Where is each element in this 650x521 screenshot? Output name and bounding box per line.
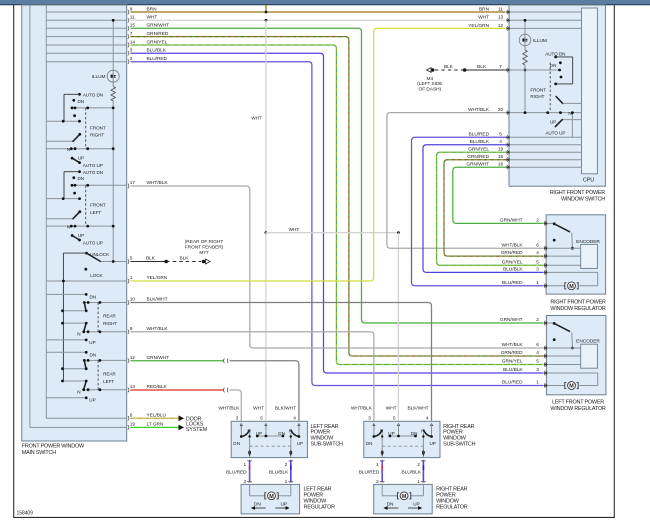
svg-text:FRONT: FRONT — [90, 203, 106, 208]
left front power window regulator caption — [550, 400, 605, 412]
wire BLU/BLK pin4 to right front regulator pin3 — [423, 145, 544, 273]
right rear power window regulator body — [374, 484, 433, 514]
svg-text:AUTO UP: AUTO UP — [83, 240, 103, 245]
svg-text:FRONT FENDER): FRONT FENDER) — [185, 244, 224, 250]
left rear power window sub-switch BLU/RED wire to regulator — [226, 460, 252, 482]
wire WHT/BLK pin9 down to right rear sub-switch pin3 — [131, 332, 374, 421]
svg-text:RIGHT FRONT POWER: RIGHT FRONT POWER — [550, 190, 606, 196]
front power window main switch body — [22, 5, 127, 441]
svg-text:ILLUM: ILLUM — [92, 74, 106, 80]
svg-text:DN: DN — [411, 431, 418, 436]
svg-text:GRN/WHT: GRN/WHT — [147, 355, 170, 361]
svg-text:FRONT: FRONT — [90, 125, 106, 130]
main switch internal feed row for pin1 — [46, 280, 126, 283]
right rear power window sub-switch body — [364, 421, 440, 457]
wire GRN/RED pin7 down to left front regulator pin4 — [131, 37, 544, 356]
main switch bus rail A — [29, 5, 31, 427]
main switch bus rail B — [45, 5, 47, 418]
main switch illumination lamp — [92, 19, 120, 262]
main switch pin 19 LT GRN row to door locks — [30, 422, 184, 431]
svg-text:M4: M4 — [427, 76, 434, 82]
left front power window regulator position switch — [547, 322, 574, 349]
right front switch pin 19 GRN/YEL — [468, 147, 581, 155]
svg-text:FRONT POWER WINDOW: FRONT POWER WINDOW — [22, 443, 85, 449]
wire BRN pin8 to right switch pin11 — [131, 11, 506, 13]
main switch caption — [22, 443, 85, 456]
svg-text:1: 1 — [536, 380, 539, 386]
svg-text:UP: UP — [550, 119, 556, 124]
right rear power window sub-switch top pin labels — [351, 405, 429, 421]
main switch rear left window switch — [46, 351, 126, 403]
svg-text:4: 4 — [536, 350, 539, 356]
wire BLK/WHT pin10 down to right rear sub-switch pin4 — [131, 303, 432, 421]
wire WHT vertical branch to rear sub-switches — [251, 20, 400, 421]
right front power window regulator caption — [550, 300, 606, 312]
svg-text:GRN/WHT: GRN/WHT — [500, 317, 523, 323]
svg-text:7: 7 — [499, 64, 502, 70]
right front switch pin 4 BLU/BLK — [470, 139, 582, 147]
wire GRN/WHT pin16 to right front regulator pin2 — [453, 167, 544, 223]
main switch pin 2 BLU/RED row — [46, 56, 167, 64]
svg-text:WINDOW REGULATOR: WINDOW REGULATOR — [550, 406, 605, 412]
svg-text:2: 2 — [536, 317, 539, 323]
right front switch pin 13 WHT — [478, 15, 581, 23]
svg-text:BLK/WHT: BLK/WHT — [408, 405, 429, 411]
svg-text:BLU/BLK: BLU/BLK — [503, 267, 523, 273]
svg-text:WHT: WHT — [251, 116, 262, 122]
main switch pin 8 BRN row — [46, 6, 157, 14]
svg-text:4: 4 — [536, 250, 539, 256]
right front switch pin 12 YEL/GRN — [468, 23, 581, 31]
svg-text:WHT/BLK: WHT/BLK — [147, 180, 169, 186]
svg-text:BLU/BLK: BLU/BLK — [402, 470, 422, 476]
svg-text:WHT/BLK: WHT/BLK — [147, 326, 169, 332]
svg-text:1: 1 — [536, 280, 539, 286]
svg-text:(REAR OF RIGHT: (REAR OF RIGHT — [185, 239, 224, 245]
svg-text:N: N — [380, 428, 383, 433]
svg-text:BLK: BLK — [180, 256, 190, 262]
svg-text:3: 3 — [368, 416, 371, 422]
svg-text:AUTO DN: AUTO DN — [83, 93, 103, 98]
right front switch caption — [550, 190, 606, 202]
main switch pin 17 WHT/BLK row — [128, 180, 169, 188]
door locks system label — [186, 416, 207, 433]
svg-text:5: 5 — [260, 416, 263, 422]
svg-text:SUB-SWITCH: SUB-SWITCH — [443, 442, 476, 448]
svg-text:WHT: WHT — [253, 405, 264, 411]
svg-text:BRN: BRN — [479, 6, 490, 12]
svg-text:YEL/BLU: YEL/BLU — [147, 413, 167, 419]
svg-text:WINDOW REGULATOR: WINDOW REGULATOR — [550, 306, 605, 312]
left rear power window regulator body — [241, 484, 300, 514]
svg-text:4: 4 — [426, 416, 429, 422]
svg-text:GRN/YEL: GRN/YEL — [502, 259, 523, 265]
wire WHT/BLK pin20 to right front regulator pin6 — [387, 113, 544, 249]
right rear power window regulator caption — [436, 486, 468, 510]
svg-text:LT GRN: LT GRN — [147, 422, 164, 428]
svg-text:OF DASH): OF DASH) — [419, 87, 442, 93]
svg-text:RIGHT REAR: RIGHT REAR — [436, 486, 468, 492]
svg-text:12: 12 — [498, 23, 504, 29]
svg-text:3: 3 — [536, 367, 539, 373]
svg-text:WHT: WHT — [478, 15, 489, 21]
right front switch CPU box — [582, 8, 598, 183]
svg-text:12: 12 — [130, 355, 136, 361]
svg-text:2: 2 — [285, 462, 288, 468]
svg-text:(LEFT SIDE: (LEFT SIDE — [417, 81, 442, 87]
svg-text:BLK: BLK — [477, 64, 487, 70]
svg-text:6: 6 — [536, 342, 539, 348]
svg-text:13: 13 — [498, 15, 504, 21]
svg-text:AUTO UP: AUTO UP — [545, 130, 565, 135]
right front switch pin 15 GRN/RED — [467, 154, 581, 162]
left rear power window regulator direction arrows — [251, 502, 290, 510]
left front power window regulator pins — [500, 317, 547, 388]
main switch pin 11 WHT row — [46, 15, 157, 23]
main switch front right window switch — [46, 93, 114, 168]
top toolbar bar — [0, 0, 650, 5]
svg-text:UP: UP — [297, 441, 303, 446]
wire RED/BLK pin13 to inline connector — [131, 388, 229, 393]
svg-text:UP: UP — [78, 156, 84, 161]
svg-text:11: 11 — [498, 6, 503, 12]
svg-text:DN: DN — [550, 63, 557, 68]
right front power window regulator motor — [547, 272, 598, 290]
svg-text:BLU/RED: BLU/RED — [359, 470, 380, 476]
svg-text:YEL/GRN: YEL/GRN — [468, 23, 489, 29]
svg-text:LEFT REAR: LEFT REAR — [304, 486, 332, 492]
svg-text:BLU/RED: BLU/RED — [226, 470, 247, 476]
svg-text:N: N — [247, 428, 250, 433]
wire BLK/WHT from connector down to left rear sub-switch pin4 — [230, 361, 299, 421]
right front switch pin 16 GRN/WHT — [466, 162, 581, 170]
svg-text:9: 9 — [130, 326, 133, 332]
wire BLU/RED pin5 to right front regulator pin1 — [412, 137, 544, 285]
svg-text:6: 6 — [130, 413, 133, 419]
svg-text:RIGHT FRONT POWER: RIGHT FRONT POWER — [550, 300, 606, 306]
right rear power window sub-switch contacts — [366, 423, 436, 458]
svg-text:BLU/RED: BLU/RED — [502, 280, 523, 286]
wire WHT pin11 to right switch pin13 — [131, 19, 506, 22]
svg-text:GRN/WHT: GRN/WHT — [500, 218, 523, 224]
svg-text:BLU/BLK: BLU/BLK — [269, 470, 289, 476]
svg-text:DN: DN — [366, 441, 373, 446]
svg-text:GRN/RED: GRN/RED — [501, 350, 523, 356]
main switch pin 6 YEL/BLU row to door locks — [46, 413, 184, 422]
left rear power window sub-switch top pin labels — [218, 405, 296, 421]
left rear power window sub-switch contacts — [233, 423, 303, 458]
svg-text:158409: 158409 — [17, 511, 34, 517]
svg-text:CPU: CPU — [583, 177, 594, 183]
wire BLU/RED pin2 down to left front regulator pin1 — [131, 62, 544, 386]
svg-text:N: N — [421, 428, 424, 433]
main switch pin 5 BLK row with ground M77 — [128, 239, 224, 264]
svg-text:ENCODER: ENCODER — [576, 239, 600, 245]
right front power window regulator encoder — [576, 239, 600, 269]
svg-text:5: 5 — [536, 359, 539, 365]
right front power window switch body — [509, 5, 605, 186]
svg-text:AUTO UP: AUTO UP — [83, 163, 103, 168]
svg-text:10: 10 — [130, 297, 136, 303]
svg-text:DN: DN — [90, 295, 97, 300]
svg-text:SUB-SWITCH: SUB-SWITCH — [311, 442, 344, 448]
svg-text:GRN/RED: GRN/RED — [501, 250, 523, 256]
svg-text:WINDOW: WINDOW — [436, 499, 460, 505]
right front switch pin 5 BLU/RED — [469, 132, 582, 140]
main switch pin 12 GRN/WHT row — [128, 355, 169, 363]
svg-text:N: N — [289, 428, 292, 433]
main switch pin 10 BLK/WHT row — [128, 297, 168, 305]
svg-text:FRONT: FRONT — [530, 87, 546, 92]
svg-text:WHT/BLK: WHT/BLK — [351, 405, 373, 411]
left rear power window sub-switch bottom pin numbers — [243, 462, 287, 485]
right front switch window switch contacts — [509, 51, 582, 137]
svg-text:WHT/BLK: WHT/BLK — [502, 242, 524, 248]
right front power window regulator pins — [500, 218, 547, 289]
main switch pin 9 WHT/BLK row — [128, 326, 169, 334]
svg-text:UP: UP — [430, 441, 436, 446]
svg-text:RED/BLK: RED/BLK — [147, 384, 168, 390]
svg-text:MAIN SWITCH: MAIN SWITCH — [22, 450, 56, 456]
right front power window regulator encoder feeds — [547, 248, 581, 265]
svg-text:REAR: REAR — [103, 371, 116, 376]
svg-text:LEFT: LEFT — [90, 210, 101, 215]
svg-text:N: N — [77, 332, 80, 337]
svg-text:M: M — [269, 494, 274, 500]
left rear power window sub-switch caption — [311, 424, 344, 448]
right rear power window sub-switch caption — [443, 424, 476, 448]
svg-text:M77: M77 — [199, 250, 209, 256]
right rear power window sub-switch BLU/BLK wire to regulator — [402, 460, 426, 482]
svg-text:DN: DN — [254, 502, 261, 508]
svg-text:WINDOW: WINDOW — [304, 499, 328, 505]
svg-text:WINDOW SWITCH: WINDOW SWITCH — [561, 197, 605, 203]
svg-text:DN: DN — [78, 176, 85, 181]
svg-text:UP: UP — [388, 431, 394, 436]
svg-text:YEL/GRN: YEL/GRN — [147, 275, 168, 281]
left front power window regulator encoder feeds — [547, 348, 581, 365]
svg-text:LEFT FRONT POWER: LEFT FRONT POWER — [552, 400, 604, 406]
left front power window regulator motor — [547, 373, 598, 390]
right rear power window regulator motor — [382, 484, 423, 500]
main switch front left window switch — [46, 170, 126, 245]
BRN feed stub at top — [265, 5, 268, 14]
main switch pin 3 BLU/BLK row — [46, 48, 166, 56]
svg-text:DN: DN — [278, 431, 285, 436]
right rear power window sub-switch bottom pin numbers — [376, 462, 420, 485]
svg-text:BLK/WHT: BLK/WHT — [275, 405, 296, 411]
right front power window regulator body — [546, 215, 606, 294]
svg-text:3: 3 — [236, 416, 239, 422]
svg-text:N: N — [67, 224, 70, 229]
svg-text:POWER: POWER — [304, 492, 324, 498]
svg-text:REAR: REAR — [103, 314, 116, 319]
svg-text:WHT/BLK: WHT/BLK — [502, 342, 524, 348]
svg-text:M: M — [569, 284, 574, 290]
svg-text:DN: DN — [387, 502, 394, 508]
svg-text:SYSTEM: SYSTEM — [186, 427, 207, 433]
right rear power window regulator direction arrows — [383, 502, 422, 510]
svg-text:RIGHT: RIGHT — [103, 321, 117, 326]
svg-text:RIGHT: RIGHT — [90, 133, 104, 138]
svg-text:UP: UP — [89, 398, 95, 403]
svg-text:POWER: POWER — [436, 492, 456, 498]
svg-text:1: 1 — [376, 462, 379, 468]
svg-text:WHT/BLK: WHT/BLK — [218, 405, 240, 411]
svg-text:BLK: BLK — [444, 64, 454, 70]
wire GRN/WHT pin15 down to left front regulator pin2 — [131, 28, 544, 323]
svg-text:AUTO DN: AUTO DN — [83, 170, 103, 175]
svg-text:2: 2 — [536, 218, 539, 224]
right front switch pin 7 BLK with ground M4 — [417, 64, 509, 92]
svg-text:M: M — [402, 494, 407, 500]
right front switch pin 20 WHT/BLK — [468, 107, 581, 115]
svg-text:WHT: WHT — [289, 227, 300, 233]
svg-text:REGULATOR: REGULATOR — [304, 505, 336, 511]
svg-text:M: M — [569, 384, 574, 390]
svg-text:6: 6 — [536, 242, 539, 248]
main switch rear right window switch — [46, 293, 126, 345]
svg-text:17: 17 — [130, 180, 136, 186]
main switch pin 14 GRN/YEL row — [46, 39, 167, 47]
svg-text:N: N — [67, 147, 70, 152]
left front power window regulator encoder — [576, 339, 600, 369]
svg-text:3: 3 — [536, 267, 539, 273]
main switch pin 15 GRN/WHT row — [46, 23, 169, 31]
svg-text:LEFT: LEFT — [103, 379, 114, 384]
wire GRN/RED pin15 to right front regulator pin4 — [444, 160, 544, 256]
wire WHT/BLK from connector down to left rear sub-switch pin3 — [230, 390, 242, 421]
svg-text:5: 5 — [130, 256, 133, 262]
svg-text:UP: UP — [89, 340, 95, 345]
svg-text:UP: UP — [256, 431, 262, 436]
svg-text:RIGHT: RIGHT — [530, 94, 544, 99]
right rear power window sub-switch BLU/RED wire to regulator — [359, 460, 385, 482]
svg-text:5: 5 — [536, 259, 539, 265]
svg-text:GRN/YEL: GRN/YEL — [502, 359, 523, 365]
svg-text:BLU/BLK: BLU/BLK — [503, 367, 523, 373]
wire GRN/YEL pin14 down to left front regulator pin5 — [131, 45, 544, 365]
svg-text:DN: DN — [233, 441, 240, 446]
svg-text:13: 13 — [130, 384, 136, 390]
svg-text:BLK/WHT: BLK/WHT — [147, 297, 168, 303]
left rear power window sub-switch BLU/BLK wire to regulator — [269, 460, 293, 482]
svg-text:UP: UP — [78, 233, 84, 238]
svg-text:4: 4 — [293, 416, 296, 422]
main switch pin 13 RED/BLK row — [128, 384, 168, 392]
wire GRN/WHT pin12 to inline connector — [131, 358, 229, 363]
svg-text:BLU/RED: BLU/RED — [502, 380, 523, 386]
right front power window regulator position switch — [547, 222, 574, 249]
svg-text:N: N — [77, 390, 80, 395]
right front switch illumination lamp — [519, 19, 547, 114]
svg-text:LOCK: LOCK — [90, 273, 103, 278]
svg-text:DN: DN — [78, 99, 85, 104]
left rear power window sub-switch body — [231, 421, 307, 457]
svg-text:ENCODER: ENCODER — [576, 339, 600, 345]
left rear power window regulator caption — [304, 486, 336, 510]
wire YEL/GRN pin1 up to right switch pin12 — [131, 28, 506, 281]
main switch pin 7 GRN/RED row — [46, 31, 169, 39]
right front switch pin 11 BRN — [479, 6, 581, 14]
main switch lock/unlock switch — [63, 252, 126, 381]
svg-text:ILLUM: ILLUM — [533, 38, 547, 44]
svg-text:REGULATOR: REGULATOR — [436, 505, 468, 511]
left rear power window regulator motor — [250, 484, 291, 500]
svg-text:2: 2 — [417, 462, 420, 468]
svg-text:WHT: WHT — [386, 405, 397, 411]
wire GRN/YEL pin19 to right front regulator pin5 — [437, 152, 544, 265]
svg-text:5: 5 — [393, 416, 396, 422]
left front power window regulator body — [546, 316, 606, 395]
wire WHT/BLK pin17 to left front regulator pin6 — [131, 186, 544, 348]
main switch pin 1 YEL/GRN row — [128, 275, 168, 283]
wire BLU/BLK pin3 down to left front regulator pin3 — [131, 53, 544, 373]
svg-text:1: 1 — [243, 462, 246, 468]
svg-text:1: 1 — [130, 275, 133, 281]
svg-text:BLK: BLK — [146, 256, 156, 262]
svg-text:DN: DN — [90, 352, 97, 357]
svg-text:19: 19 — [130, 422, 136, 428]
